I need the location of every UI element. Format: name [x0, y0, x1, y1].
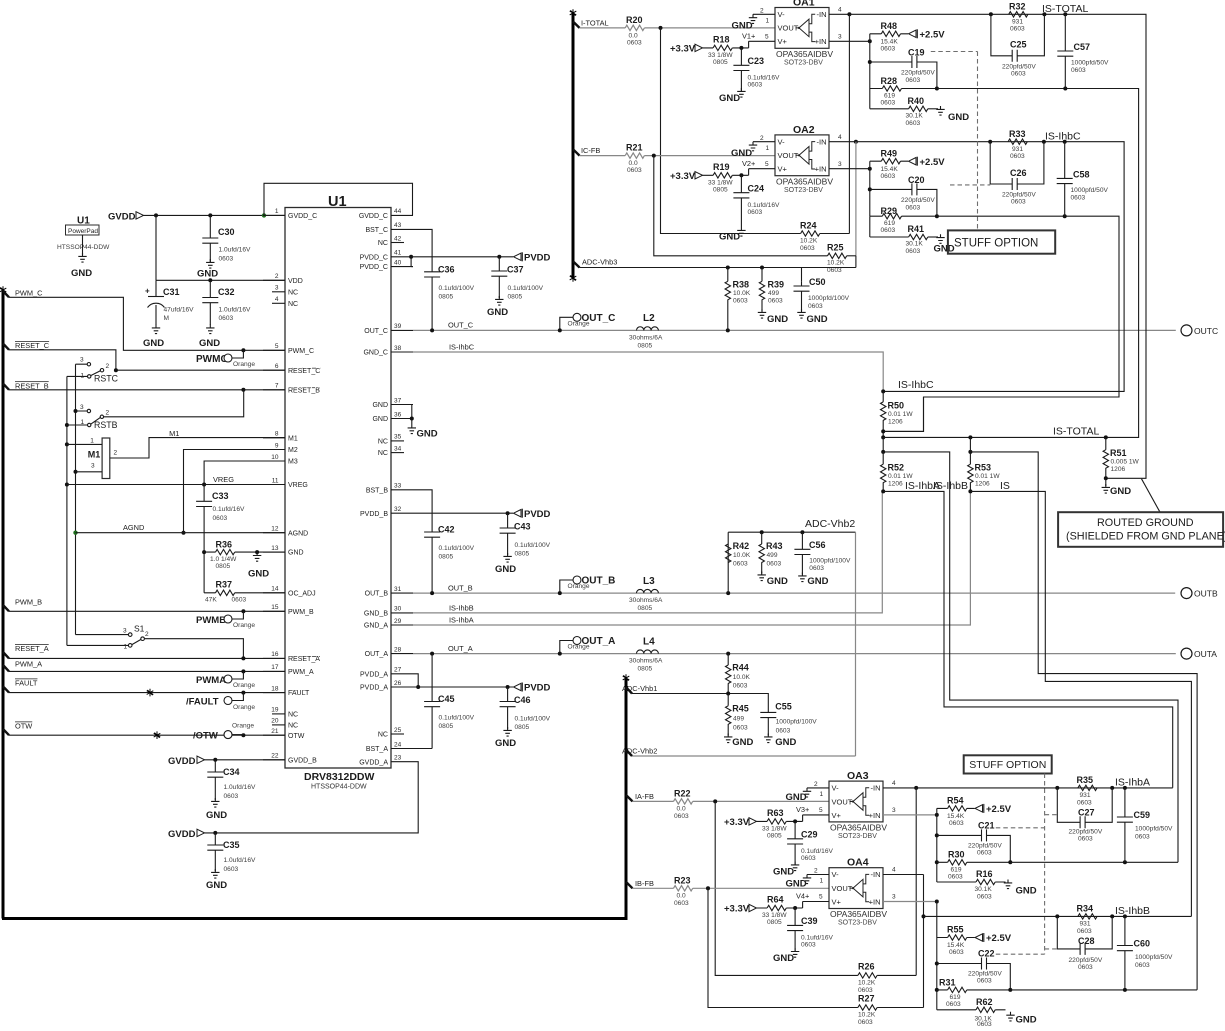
junction OUT_A/R44: [726, 652, 730, 656]
capacitor C55: [760, 702, 817, 736]
svg-text:R64: R64: [767, 895, 784, 905]
junction C21 left: [935, 833, 939, 837]
svg-text:GND: GND: [807, 576, 828, 587]
wire -IN vertical to R26: [915, 788, 917, 976]
svg-text:2: 2: [760, 8, 764, 15]
test point OUT_A: [558, 636, 616, 655]
resistor R16: [975, 869, 996, 901]
svg-text:GND_A: GND_A: [364, 623, 388, 630]
svg-text:0603: 0603: [977, 978, 992, 985]
power flag GVDD (pin23 rail): [168, 829, 205, 840]
pin 15 PWM_B: [263, 604, 314, 616]
wire R52 bottom kelvin: [883, 491, 1172, 787]
pin 4 -IN OA2: [829, 134, 856, 142]
svg-text:4: 4: [892, 780, 896, 787]
pin 4 -IN OA1: [829, 7, 849, 15]
svg-text:PWMB: PWMB: [196, 615, 226, 626]
svg-text:PWMA: PWMA: [196, 675, 226, 686]
ground at C34: [206, 798, 227, 821]
svg-text:0603: 0603: [748, 209, 763, 216]
svg-text:Orange: Orange: [568, 583, 590, 590]
svg-text:C43: C43: [514, 522, 531, 532]
pin 3 +IN OA3: [883, 807, 937, 815]
svg-text:0603: 0603: [906, 248, 921, 255]
svg-text:16: 16: [271, 651, 279, 658]
op-amp OA3: [829, 770, 887, 840]
svg-text:C42: C42: [438, 525, 455, 535]
wire R53 col from IS-TOTAL row: [969, 437, 971, 464]
wire feedback to R26: [715, 801, 858, 975]
svg-text:NC: NC: [378, 732, 388, 739]
svg-text:0603: 0603: [776, 728, 791, 735]
bus marker top: [570, 9, 577, 17]
svg-text:0603: 0603: [1011, 71, 1026, 78]
capacitor C27 (with loop): [1057, 788, 1112, 843]
svg-text:R42: R42: [733, 541, 750, 551]
junction R44/ADC-Vhb1: [726, 692, 730, 696]
capacitor C30: [202, 215, 251, 262]
svg-text:2: 2: [145, 631, 149, 638]
svg-text:220pfd/50V: 220pfd/50V: [968, 971, 1002, 978]
pin 21 OTW: [263, 728, 305, 740]
svg-text:C26: C26: [1010, 168, 1027, 178]
ground at C23: [719, 88, 746, 104]
svg-text:M: M: [164, 315, 170, 322]
wire R53 bottom (IS): [970, 491, 1191, 916]
svg-text:0603: 0603: [906, 204, 921, 211]
svg-text:3: 3: [838, 34, 842, 41]
pin 5 V+ OA2: [749, 161, 775, 169]
svg-text:0.01 1W: 0.01 1W: [975, 473, 1000, 480]
junction IB-FB/R27: [706, 886, 710, 890]
svg-text:C34: C34: [223, 767, 240, 777]
svg-text:0.0: 0.0: [629, 160, 638, 167]
resistor R37: [204, 580, 285, 604]
svg-text:22: 22: [271, 753, 279, 760]
svg-text:0603: 0603: [977, 894, 992, 901]
wire +IN vertical to C19/R28: [869, 41, 871, 88]
ground at C37: [487, 296, 508, 318]
ground at R62: [1006, 1012, 1036, 1026]
wire GVDD rail to pin1: [144, 214, 286, 216]
svg-text:HTSSOP44-DDW: HTSSOP44-DDW: [57, 244, 110, 251]
svg-text:OA4: OA4: [847, 857, 869, 869]
junction OUT_C/R38: [726, 328, 730, 332]
svg-text:0.1ufd/16V: 0.1ufd/16V: [213, 506, 245, 513]
wire R51 bottom to GND: [1105, 478, 1107, 486]
svg-text:41: 41: [394, 250, 402, 257]
svg-text:1206: 1206: [888, 419, 903, 426]
svg-text:GND: GND: [786, 792, 807, 803]
svg-text:GND: GND: [288, 550, 304, 557]
svg-text:0603: 0603: [1010, 153, 1025, 160]
svg-text:40: 40: [394, 259, 402, 266]
ground at C39: [773, 948, 799, 964]
test point OUT_C: [558, 313, 616, 332]
svg-text:33 1/8W: 33 1/8W: [708, 179, 733, 186]
svg-text:4: 4: [275, 296, 279, 303]
pin 42 NC: [378, 235, 404, 247]
capacitor C19: [870, 48, 937, 89]
svg-text:1.0ufd/16V: 1.0ufd/16V: [219, 307, 251, 314]
svg-text:FAULT: FAULT: [15, 679, 38, 688]
wire PVDD_A pins 27/26 join: [413, 674, 418, 687]
junction M1 pin3: [74, 470, 78, 474]
wire R16 row: [937, 881, 1006, 883]
wire AGND row: [76, 532, 286, 534]
svg-text:R41: R41: [908, 224, 925, 234]
pin 32 PVDD_B: [360, 506, 413, 518]
svg-text:47K: 47K: [205, 597, 217, 604]
svg-text:1.0ufd/16V: 1.0ufd/16V: [224, 857, 256, 864]
svg-text:220pfd/50V: 220pfd/50V: [968, 843, 1002, 850]
resistor R41: [906, 224, 939, 255]
wire -IN vertical to R24: [848, 14, 850, 233]
svg-text:V1+: V1+: [742, 32, 755, 41]
ground at C43: [495, 553, 516, 575]
svg-text:1000pfd/50V: 1000pfd/50V: [1135, 826, 1173, 833]
wire PVDD_C pins 41/40 join: [411, 257, 413, 267]
IC U1 body: [285, 194, 391, 791]
svg-text:IA-FB: IA-FB: [635, 792, 654, 801]
svg-text:IC-FB: IC-FB: [581, 146, 600, 155]
inductor L4: [629, 636, 663, 672]
svg-text:+2.5V: +2.5V: [986, 804, 1012, 815]
svg-text:30.1K: 30.1K: [906, 241, 924, 248]
pin 28 OUT_A: [365, 646, 413, 658]
svg-text:0805: 0805: [713, 59, 728, 66]
capacitor C26 (with loop): [990, 142, 1044, 206]
power flag GVDD (top): [108, 212, 144, 223]
svg-text:10: 10: [271, 454, 279, 461]
svg-text:+3.3V: +3.3V: [670, 171, 696, 182]
svg-text:3: 3: [892, 894, 896, 901]
svg-text:RESET_A: RESET_A: [288, 656, 320, 663]
svg-text:43: 43: [394, 222, 402, 229]
bus entry PWM_A: [3, 665, 9, 671]
switch RSTB: [67, 390, 244, 430]
svg-text:NC: NC: [288, 301, 298, 308]
svg-text:R48: R48: [881, 21, 898, 31]
svg-text:M3: M3: [288, 459, 298, 466]
resistor R43: [759, 532, 783, 573]
power flag +2.5V (OA3): [975, 804, 1012, 815]
svg-text:0805: 0805: [508, 294, 523, 301]
ground at C24: [719, 227, 746, 243]
svg-text:0603: 0603: [733, 298, 748, 305]
right vertical of bottom bus: [625, 679, 628, 920]
svg-text:R23: R23: [674, 876, 691, 886]
pin 44 GVDD_C: [359, 208, 413, 220]
svg-text:+: +: [145, 287, 150, 296]
svg-text:17: 17: [271, 664, 279, 671]
svg-text:OUTB: OUTB: [1194, 589, 1218, 599]
svg-text:RSTC: RSTC: [94, 374, 119, 384]
svg-text:18: 18: [271, 685, 279, 692]
ground at C46: [495, 727, 516, 749]
wire GVDD_B: [205, 759, 286, 761]
pin 31 OUT_B: [365, 586, 413, 598]
svg-text:0603: 0603: [977, 850, 992, 857]
svg-text:/FAULT: /FAULT: [186, 697, 219, 708]
junction R31 left: [935, 988, 939, 992]
svg-text:M2: M2: [288, 447, 298, 454]
resistor R39: [759, 268, 784, 312]
pin 3 +IN OA2: [829, 161, 870, 169]
junction R32 left: [989, 12, 993, 16]
power flag +3.3V (OA3): [724, 817, 757, 828]
wire R30 output row: [1010, 861, 1178, 863]
resistor R32: [1009, 2, 1028, 33]
pin 19 NC: [271, 707, 298, 719]
svg-text:R27: R27: [858, 994, 875, 1004]
junction R53 top row: [968, 450, 972, 454]
junction R19/C24: [739, 173, 743, 177]
svg-text:0603: 0603: [1077, 928, 1092, 935]
junction OA3 -IN: [914, 786, 918, 790]
capacitor C23: [733, 48, 780, 91]
wire IS-IhbB (pin30): [413, 491, 882, 613]
svg-text:1206: 1206: [975, 481, 990, 488]
svg-text:1000pfd/50V: 1000pfd/50V: [1071, 187, 1109, 194]
wire R21 to OA2 VOUT: [644, 155, 775, 157]
svg-text:PVDD_C: PVDD_C: [360, 264, 388, 271]
junction R35 right: [1110, 786, 1114, 790]
svg-text:2: 2: [106, 363, 110, 370]
junction R43 top: [760, 530, 764, 534]
svg-text:0603: 0603: [1135, 962, 1150, 969]
resistor R29: [870, 206, 937, 234]
svg-text:0.1ufd/100V: 0.1ufd/100V: [439, 545, 475, 552]
svg-text:BST_C: BST_C: [365, 227, 388, 234]
svg-text:M1: M1: [169, 429, 179, 438]
bus entry RESET_B: [3, 384, 9, 390]
junction R29/C20 right: [935, 214, 939, 218]
svg-text:3: 3: [80, 404, 84, 411]
junction GVDD/C30: [208, 213, 212, 217]
resistor R40: [906, 96, 939, 127]
pin 22 GVDD_B: [263, 753, 317, 765]
wire ADC-Vhb1 row: [632, 694, 768, 713]
pin 23 GVDD_A: [359, 755, 413, 767]
svg-text:C28: C28: [1078, 936, 1095, 946]
svg-text:C20: C20: [908, 175, 925, 185]
stuff option box (top): [948, 230, 1055, 253]
resistor R23: [674, 876, 693, 908]
svg-text:15.4K: 15.4K: [947, 942, 965, 949]
capacitor C28 (with loop): [1057, 916, 1112, 971]
svg-text:21: 21: [271, 728, 279, 735]
resistor R35: [1077, 775, 1098, 807]
svg-text:M1: M1: [88, 450, 101, 460]
pin 4 -IN OA3: [883, 780, 916, 788]
svg-text:0603: 0603: [1078, 836, 1093, 843]
svg-text:8: 8: [275, 431, 279, 438]
junction PWM_C testpoint: [241, 348, 245, 352]
capacitor C25 (with loop): [991, 14, 1045, 77]
svg-text:220pfd/50V: 220pfd/50V: [901, 70, 935, 77]
svg-text:0603: 0603: [977, 1021, 992, 1026]
ground at OA3 V-: [786, 788, 812, 803]
svg-text:23: 23: [394, 755, 402, 762]
svg-text:1.0 1/4W: 1.0 1/4W: [210, 556, 237, 563]
svg-text:30ohms/6A: 30ohms/6A: [629, 658, 663, 665]
svg-text:SOT23-DBV: SOT23-DBV: [784, 187, 823, 194]
svg-text:10.2K: 10.2K: [800, 238, 818, 245]
svg-text:1: 1: [81, 419, 85, 426]
wire FAULT: [9, 692, 285, 694]
svg-text:C25: C25: [1010, 40, 1027, 50]
ground at C50: [797, 309, 827, 325]
resistor R44: [726, 654, 751, 694]
junction R33 left: [988, 140, 992, 144]
junction C57 bottom: [1063, 87, 1067, 91]
svg-text:C37: C37: [507, 265, 524, 275]
pin 43 BST_C: [365, 222, 413, 234]
svg-text:0603: 0603: [1071, 67, 1086, 74]
resistor R53: [968, 463, 1001, 492]
svg-text:GND: GND: [786, 879, 807, 890]
junction R51 bottom: [1104, 476, 1108, 480]
wire IA-FB to R22: [633, 800, 674, 802]
bus entry OTW: [3, 729, 9, 735]
wire OUT_A row: [413, 653, 1176, 655]
svg-text:PWM_C: PWM_C: [15, 289, 43, 298]
svg-text:33 1/8W: 33 1/8W: [762, 912, 787, 919]
svg-text:AGND: AGND: [123, 523, 144, 532]
junction IS-TOTAL row left: [881, 435, 885, 439]
junction OA2 +IN: [868, 167, 872, 171]
svg-text:1000pfd/100V: 1000pfd/100V: [808, 295, 850, 302]
svg-text:34: 34: [394, 445, 402, 452]
svg-text:R54: R54: [947, 796, 964, 806]
svg-text:R39: R39: [768, 280, 785, 290]
pin 2 V- OA4: [807, 868, 829, 875]
svg-text:28: 28: [394, 646, 402, 653]
capacitor C22: [937, 949, 1011, 990]
svg-text:IS-IhbA: IS-IhbA: [1115, 777, 1150, 789]
junction OA4 -IN/IS-IhbB row: [922, 914, 926, 918]
pin 17 PWM_A: [263, 664, 314, 676]
pin 3 +IN OA4: [883, 894, 937, 902]
output connector OUTC: [1181, 325, 1218, 336]
resistor R51: [1103, 437, 1139, 478]
svg-text:0603: 0603: [213, 515, 228, 522]
junction IS-IhbC/R50 top: [881, 389, 885, 393]
junction R36 left: [202, 550, 206, 554]
svg-text:BST_A: BST_A: [366, 746, 389, 753]
capacitor C59: [1117, 788, 1173, 862]
svg-text:24: 24: [394, 741, 402, 748]
svg-text:R63: R63: [767, 808, 784, 818]
bus entry ADC-Vhb2: [626, 750, 632, 756]
wire RSTC1/RSTB1 vertical: [66, 376, 68, 645]
svg-text:OUT_A: OUT_A: [365, 651, 389, 658]
ground at R40: [936, 106, 969, 123]
svg-text:PWM_C: PWM_C: [288, 348, 314, 355]
wire IB-FB to R23: [633, 887, 674, 889]
junction R53 col on IS-TOTAL row: [968, 435, 972, 439]
svg-text:0805: 0805: [767, 919, 782, 926]
svg-text:PVDD_A: PVDD_A: [360, 685, 388, 692]
svg-text:R37: R37: [216, 580, 233, 590]
bus entry ADC-Vhb3: [573, 261, 580, 267]
wire R23 to OA4 VOUT: [693, 887, 829, 889]
capacitor C56: [794, 532, 851, 574]
junction C22 left: [935, 962, 939, 966]
svg-text:OTW: OTW: [15, 722, 32, 731]
test point /OTW: [193, 723, 254, 742]
pin 5 V+ OA1: [749, 34, 775, 42]
wire R22 to OA3 VOUT: [693, 800, 829, 802]
svg-text:VDD: VDD: [288, 278, 303, 285]
svg-text:38: 38: [394, 345, 402, 352]
junction FAULT testpoint: [241, 691, 245, 695]
svg-text:Orange: Orange: [233, 704, 255, 711]
wire M2 to AGND: [184, 450, 286, 533]
svg-text:Orange: Orange: [233, 622, 255, 629]
svg-text:0603: 0603: [946, 1001, 961, 1008]
ground at R43: [758, 572, 788, 588]
svg-text:5: 5: [765, 161, 769, 168]
svg-text:GND: GND: [206, 880, 227, 891]
svg-text:C56: C56: [809, 540, 826, 550]
svg-text:GND: GND: [372, 402, 388, 409]
svg-text:PVDD_A: PVDD_A: [360, 671, 388, 678]
inductor L2: [629, 313, 663, 349]
svg-text:R25: R25: [827, 243, 844, 253]
wire +IN vertical to C20/R29: [869, 169, 871, 217]
svg-text:11: 11: [272, 477, 279, 484]
ground at R16: [1004, 880, 1037, 897]
junction pins26/27: [416, 685, 420, 689]
svg-text:33 1/8W: 33 1/8W: [708, 52, 733, 59]
svg-text:1: 1: [820, 791, 824, 798]
svg-text:0603: 0603: [748, 82, 763, 89]
ground at R39: [758, 309, 788, 325]
svg-text:499: 499: [733, 716, 744, 723]
svg-text:GND: GND: [731, 148, 752, 159]
pin 30 GND_B: [364, 606, 413, 618]
wire PVDD_B rail: [413, 512, 513, 514]
wire OA2 -IN net to corner: [856, 142, 1124, 392]
svg-text:36: 36: [394, 411, 402, 418]
svg-text:GVDD: GVDD: [108, 212, 136, 223]
svg-text:1000pfd/100V: 1000pfd/100V: [776, 719, 818, 726]
svg-text:RESET_C: RESET_C: [15, 341, 50, 350]
junction R31/C22 right: [1008, 988, 1012, 992]
pin 5 V+ OA4: [803, 894, 829, 902]
svg-text:0.1ufd/100V: 0.1ufd/100V: [515, 542, 551, 549]
svg-text:IS-IhbC: IS-IhbC: [449, 343, 475, 352]
ground at PowerPad: [71, 253, 92, 279]
svg-text:0.1ufd/16V: 0.1ufd/16V: [748, 75, 780, 82]
pin 14 OC_ADJ: [263, 586, 316, 598]
svg-text:7: 7: [275, 383, 279, 390]
svg-text:0805: 0805: [216, 563, 231, 570]
svg-text:R32: R32: [1009, 2, 1026, 12]
svg-text:V2+: V2+: [742, 159, 755, 168]
svg-text:42: 42: [394, 235, 402, 242]
svg-text:619: 619: [950, 994, 961, 1001]
capacitor C33: [196, 485, 245, 533]
junction R34 right: [1110, 914, 1114, 918]
svg-text:OA2: OA2: [793, 124, 815, 136]
bus entry PWM_C: [3, 291, 9, 297]
resistor R20: [625, 15, 644, 47]
svg-text:3: 3: [91, 463, 95, 470]
ground at C29: [773, 862, 799, 878]
